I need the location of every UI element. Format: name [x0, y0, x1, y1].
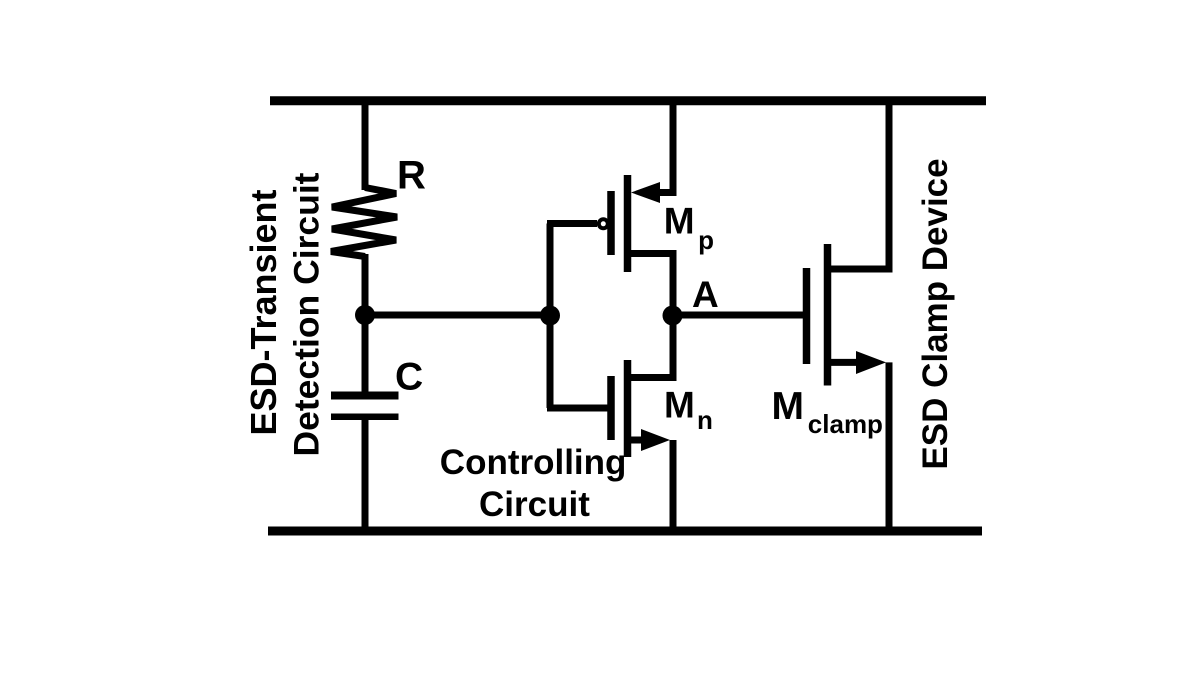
wire: capacitor bottom to VSS: [362, 417, 369, 535]
transistor Mn source arrow (points out of channel): [641, 429, 670, 451]
svg-text:R: R: [397, 154, 426, 198]
svg-text:clamp: clamp: [808, 409, 883, 439]
wire: Mn source vertical to VSS: [670, 440, 677, 535]
wire: VDD to resistor top: [362, 97, 369, 190]
node RC junction dot: [355, 305, 375, 325]
svg-text:ESD-Transient: ESD-Transient: [243, 189, 284, 435]
wire: gate stem vertical (inverter input): [547, 224, 554, 409]
wire: Mn gate horizontal: [547, 405, 608, 412]
wire: Mp drain down to node A: [631, 254, 673, 316]
svg-text:Circuit: Circuit: [479, 485, 590, 524]
wire: Mp source to VDD: [656, 97, 673, 193]
power rail VDD (top bus): [270, 96, 986, 105]
wire: Mp gate horizontal: [547, 220, 597, 227]
label Mp: [664, 201, 714, 256]
transistor Mclamp channel bar: [824, 244, 832, 386]
transistor Mp gate bubble: [599, 219, 608, 228]
capacitor C top plate: [331, 392, 399, 400]
transistor Mp gate bar: [607, 191, 615, 255]
svg-text:M: M: [664, 385, 695, 426]
svg-text:Controlling: Controlling: [440, 443, 627, 482]
resistor R: [331, 188, 397, 257]
transistor Mclamp source arrow (points out of channel): [856, 351, 886, 374]
wire: node RC to capacitor top: [362, 315, 369, 394]
transistor Mclamp gate bar: [803, 268, 811, 364]
svg-text:A: A: [692, 274, 719, 315]
label Controlling Circuit (two lines): [440, 443, 627, 524]
transistor Mn channel bar: [624, 360, 632, 457]
wire: node A to Mclamp gate: [672, 312, 803, 319]
label Mn: [664, 385, 713, 436]
svg-text:n: n: [697, 405, 713, 435]
transistor Mp source arrow (points into channel): [631, 182, 660, 203]
svg-text:M: M: [664, 201, 695, 242]
svg-text:ESD Clamp Device: ESD Clamp Device: [916, 158, 955, 469]
wire: Mclamp source vertical to VSS: [886, 362, 893, 535]
wire: node RC horizontal to inverter input: [365, 312, 551, 319]
wire: Mn source to VSS: [631, 437, 652, 444]
svg-text:C: C: [395, 356, 423, 399]
node A junction dot: [663, 306, 683, 326]
svg-text:p: p: [698, 225, 714, 255]
wire: Mclamp source horizontal: [831, 359, 860, 366]
ground rail VSS (bottom bus): [268, 527, 982, 536]
wire: Mclamp drain to VDD: [831, 97, 889, 269]
wire: resistor bottom to node RC: [362, 254, 369, 318]
svg-text:M: M: [772, 385, 805, 428]
wire: Mn drain up to node A: [631, 315, 673, 378]
label Mclamp: [772, 385, 883, 439]
svg-text:Detection Circuit: Detection Circuit: [287, 172, 327, 456]
capacitor C bottom plate: [331, 414, 399, 421]
node: inverter input junction dot: [540, 306, 560, 326]
transistor Mp channel bar: [624, 175, 632, 272]
transistor Mn gate bar: [607, 376, 615, 440]
